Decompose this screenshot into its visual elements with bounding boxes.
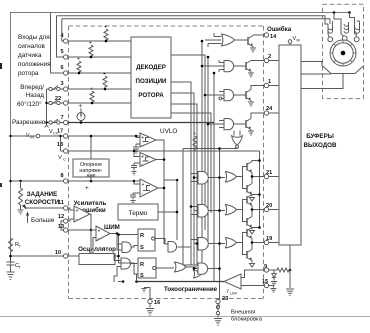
svg-text:17: 17 <box>57 129 63 135</box>
svg-text:12: 12 <box>58 214 64 220</box>
svg-text:LIM: LIM <box>230 291 237 296</box>
svg-text:Больше: Больше <box>31 217 55 224</box>
svg-text:Внешняя: Внешняя <box>231 310 255 316</box>
svg-text:S: S <box>140 273 144 279</box>
svg-text:7: 7 <box>60 115 63 121</box>
svg-text:+: + <box>90 87 93 93</box>
svg-text:+: + <box>98 229 101 235</box>
svg-text:БУФЕРЫ: БУФЕРЫ <box>306 133 334 140</box>
svg-text:3: 3 <box>60 81 63 87</box>
svg-text:Токоограничение: Токоограничение <box>164 286 218 293</box>
svg-text:+: + <box>141 155 144 161</box>
svg-text:ВЫХОДОВ: ВЫХОДОВ <box>304 142 337 149</box>
svg-text:ПОЗИЦИИ: ПОЗИЦИИ <box>136 78 168 85</box>
svg-text:23: 23 <box>222 296 228 302</box>
svg-text:СКОРОСТИ: СКОРОСТИ <box>25 199 60 206</box>
svg-text:60°/120°: 60°/120° <box>17 100 42 108</box>
svg-text:Назад: Назад <box>26 92 45 99</box>
svg-text:+: + <box>104 25 107 31</box>
svg-text:ротора: ротора <box>18 70 39 77</box>
svg-text:R: R <box>140 233 144 239</box>
svg-text:M: M <box>297 38 300 43</box>
svg-text:11: 11 <box>58 200 64 206</box>
svg-text:РОТОРА: РОТОРА <box>138 92 164 99</box>
svg-text:+: + <box>141 135 144 141</box>
svg-text:Осциллятор: Осциллятор <box>78 246 116 253</box>
svg-text:+: + <box>76 209 79 215</box>
svg-text:ДЕКОДЕР: ДЕКОДЕР <box>136 64 166 71</box>
svg-text:S: S <box>140 245 144 251</box>
svg-text:C: C <box>63 157 66 162</box>
svg-text:+: + <box>142 182 145 188</box>
svg-text:UVLO: UVLO <box>160 128 177 135</box>
svg-text:сигналов: сигналов <box>18 43 46 50</box>
svg-text:+: + <box>79 103 83 110</box>
svg-text:Разрешено: Разрешено <box>12 119 46 126</box>
svg-text:+: + <box>77 57 80 63</box>
svg-text:датчика: датчика <box>18 52 42 59</box>
svg-text:блокировка: блокировка <box>231 317 263 323</box>
svg-text:10: 10 <box>55 250 61 256</box>
svg-text:V: V <box>58 155 62 161</box>
svg-text:Усилитель: Усилитель <box>74 200 107 207</box>
svg-text:5: 5 <box>60 49 63 55</box>
svg-text:6: 6 <box>60 65 63 71</box>
svg-text:16: 16 <box>154 300 160 306</box>
svg-text:+: + <box>85 185 89 192</box>
svg-text:Термо: Термо <box>129 210 148 217</box>
svg-text:+: + <box>103 72 106 78</box>
svg-text:Входы для: Входы для <box>18 34 50 41</box>
svg-text:положения: положения <box>18 61 51 68</box>
svg-text:ЗАДАНИЕ: ЗАДАНИЕ <box>27 191 58 198</box>
svg-text:Ошибка: Ошибка <box>267 26 292 33</box>
svg-text:14: 14 <box>270 34 277 40</box>
svg-text:ШИМ: ШИМ <box>104 224 120 231</box>
svg-text:R: R <box>140 262 144 268</box>
svg-text:Вперед/: Вперед/ <box>20 84 44 91</box>
svg-text:+: + <box>89 41 92 47</box>
svg-text:13: 13 <box>58 224 64 230</box>
svg-text:IN: IN <box>30 135 34 140</box>
svg-text:8: 8 <box>60 173 63 179</box>
